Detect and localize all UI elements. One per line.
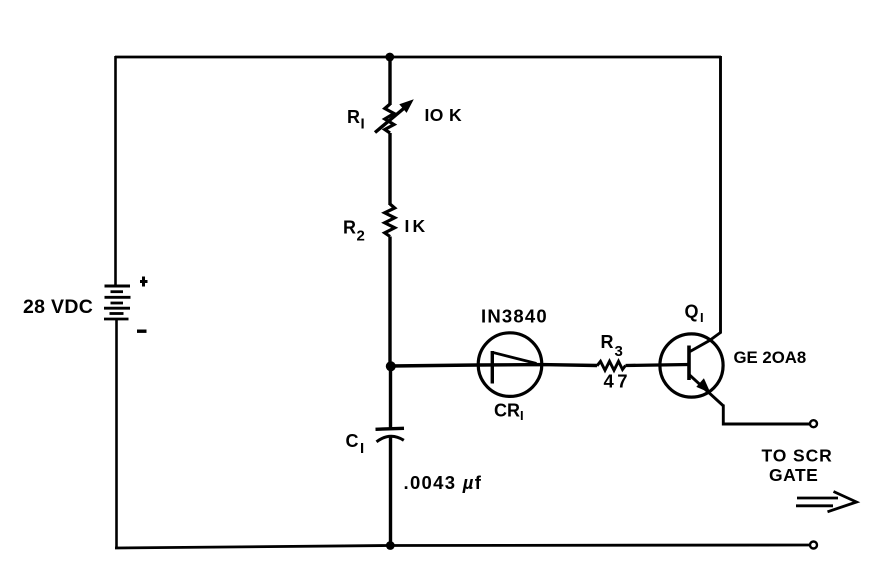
node top junction bbox=[385, 53, 394, 62]
wire bottom rail bbox=[115, 545, 810, 548]
diode CR1 circle bbox=[478, 333, 542, 397]
diode CR1 cathode bar bbox=[491, 351, 494, 384]
svg-text:GATE: GATE bbox=[769, 465, 818, 485]
svg-text:IO K: IO K bbox=[425, 105, 463, 125]
capacitor C1 curved plate bbox=[377, 436, 404, 442]
node bottom junction bbox=[386, 541, 395, 550]
svg-text:2: 2 bbox=[357, 228, 365, 245]
terminal bottom output bbox=[810, 542, 817, 549]
capacitor C1 top plate bbox=[376, 428, 405, 429]
node mid junction bbox=[386, 361, 396, 371]
wire middle branch top bbox=[388, 56, 391, 105]
svg-text:I: I bbox=[520, 408, 524, 423]
svg-text:I: I bbox=[361, 116, 365, 133]
svg-text:I: I bbox=[700, 310, 704, 325]
transistor Q1 emitter lead bbox=[689, 375, 724, 407]
battery BT 28 VDC bbox=[104, 286, 131, 319]
battery plus mark bbox=[140, 277, 148, 287]
transistor Q1 collector lead bbox=[690, 333, 721, 352]
wire left vertical upper bbox=[114, 56, 117, 286]
svg-text:CR: CR bbox=[494, 401, 520, 421]
svg-text:TO SCR: TO SCR bbox=[762, 446, 833, 466]
terminal gate output bbox=[810, 420, 817, 427]
svg-text:IK: IK bbox=[405, 216, 429, 236]
battery minus mark bbox=[137, 330, 147, 333]
transistor Q1 circle bbox=[660, 334, 723, 397]
svg-text:C: C bbox=[346, 431, 359, 451]
svg-text:3: 3 bbox=[615, 343, 623, 360]
svg-text:R: R bbox=[601, 332, 614, 352]
wire between R2 and mid node bbox=[388, 237, 391, 369]
wire R3 to Q1 base bbox=[626, 365, 690, 366]
svg-text:GE 2OA8: GE 2OA8 bbox=[734, 348, 807, 367]
svg-text:R: R bbox=[347, 107, 360, 127]
wire between R1 and R2 bbox=[388, 133, 391, 205]
svg-text:47: 47 bbox=[604, 371, 631, 392]
wire capacitor branch lower bbox=[389, 437, 392, 546]
wire top rail bbox=[115, 56, 721, 59]
resistor R3 zigzag bbox=[597, 361, 626, 370]
svg-text:.0043 µf: .0043 µf bbox=[404, 472, 483, 493]
transistor Q1 base bar bbox=[687, 346, 691, 381]
svg-text:R: R bbox=[343, 218, 356, 238]
transistor Q1 emitter arrowhead bbox=[696, 378, 710, 393]
resistor R2 zigzag bbox=[385, 204, 395, 237]
wire emitter to gate terminal bbox=[723, 405, 810, 425]
wire mid horizontal to CR1 bbox=[390, 365, 597, 366]
wire capacitor branch upper bbox=[389, 366, 392, 429]
diode CR1 sloped edge bbox=[492, 352, 536, 363]
wire left vertical lower bbox=[115, 319, 118, 549]
svg-text:IN3840: IN3840 bbox=[481, 306, 548, 327]
arrow to SCR gate bbox=[796, 492, 857, 512]
svg-text:I: I bbox=[360, 440, 364, 457]
wire collector vertical to top rail bbox=[719, 56, 722, 334]
resistor R1 (variable) zigzag bbox=[385, 104, 394, 133]
svg-text:28 VDC: 28 VDC bbox=[23, 296, 93, 318]
svg-text:Q: Q bbox=[685, 302, 699, 322]
resistor R1 arrow bbox=[375, 105, 409, 133]
